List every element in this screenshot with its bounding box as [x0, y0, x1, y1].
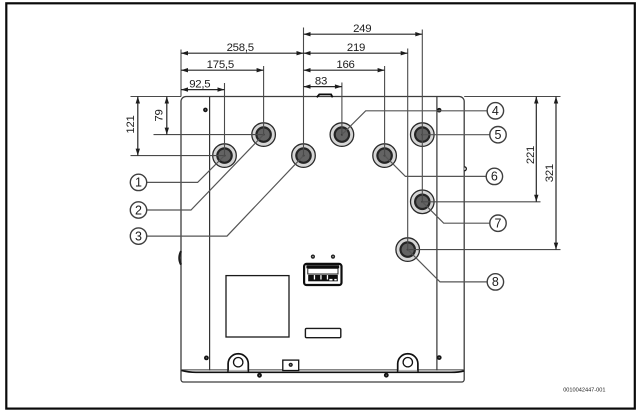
screw top left — [203, 108, 208, 113]
svg-text:321: 321 — [544, 164, 556, 182]
arrows 121 — [136, 97, 140, 104]
label plate — [305, 328, 340, 337]
leader callout 8 — [408, 250, 488, 282]
connector 8 — [396, 238, 420, 262]
arrows 321 — [554, 97, 558, 104]
svg-text:4: 4 — [492, 104, 499, 118]
arrows 175,5 — [181, 68, 188, 72]
ext line connector 5 and 7 — [421, 30, 423, 202]
center bottom bracket — [283, 360, 299, 370]
dim line 219 — [304, 52, 408, 54]
svg-text:79: 79 — [153, 109, 165, 121]
callout circle 3 — [130, 228, 146, 244]
ref line connector 8 right — [408, 249, 561, 251]
dim line 79 — [166, 97, 168, 135]
arrows 92,5 — [181, 87, 188, 91]
callout circle 5 — [490, 127, 506, 143]
callout circle 2 — [130, 202, 146, 218]
ext line connector 3 — [303, 28, 305, 156]
dim line 175,5 — [181, 69, 264, 71]
left mounting tab — [228, 354, 248, 372]
usb socket — [304, 264, 341, 285]
ref line row 134.6 — [154, 134, 264, 136]
dim line 166 — [304, 69, 385, 71]
svg-text:8: 8 — [492, 275, 499, 289]
arrows 79 — [165, 97, 169, 104]
connector 7 — [411, 190, 435, 214]
leader callout 4 — [342, 111, 487, 135]
ext line connector 8 — [407, 49, 409, 250]
arrowheads — [136, 32, 559, 250]
dim line 249 — [304, 33, 423, 35]
leader callout 6 — [385, 156, 487, 177]
ref line top right — [464, 96, 560, 98]
dimension lines — [138, 34, 556, 249]
leader callout 5 — [422, 134, 490, 136]
ref line top left — [131, 96, 182, 98]
callout circle 4 — [487, 103, 503, 119]
screw bottom left — [204, 356, 209, 361]
arrows 258,5 — [181, 51, 188, 55]
ext line connector 6 — [384, 66, 386, 156]
arrows 83 — [304, 84, 311, 88]
connector 4 — [330, 123, 354, 147]
top notch — [317, 94, 333, 97]
electronics box — [226, 276, 289, 337]
leader lines — [147, 111, 490, 282]
svg-text:6: 6 — [491, 170, 498, 184]
svg-text:219: 219 — [347, 42, 365, 54]
inner panel right edge — [436, 97, 438, 371]
dimension labels — [125, 23, 556, 182]
arrows 249 — [304, 32, 311, 36]
bottom rail thick shadow line — [182, 370, 465, 372]
dim line 321 — [555, 97, 557, 250]
connector 2 — [252, 123, 276, 147]
extension and reference lines — [131, 28, 561, 250]
svg-text:0010042447-001: 0010042447-001 — [563, 387, 605, 393]
ext line x181 above panel — [180, 50, 182, 97]
connector 5 — [411, 123, 435, 147]
svg-text:166: 166 — [336, 59, 354, 71]
screw above usb left — [311, 255, 315, 259]
bottom rail top thin line — [182, 369, 464, 371]
screw bottom right — [437, 355, 442, 360]
dim line 83 — [304, 86, 342, 88]
ref line row 155.6 — [131, 155, 225, 157]
dim line 121 — [137, 97, 139, 156]
arrows 221 — [534, 97, 538, 104]
leader callout 3 — [147, 156, 304, 237]
right mounting tab — [398, 354, 418, 372]
connector 3 — [292, 144, 316, 168]
svg-text:175,5: 175,5 — [207, 59, 234, 71]
rivet rail left — [257, 373, 262, 378]
leader callout 2 — [147, 135, 264, 210]
svg-text:1: 1 — [135, 176, 142, 190]
svg-text:83: 83 — [315, 75, 327, 87]
ref line connector 7 right — [422, 201, 540, 203]
dim line 221 — [535, 97, 537, 202]
screw top right — [437, 108, 442, 113]
svg-text:249: 249 — [353, 23, 371, 35]
callout circle 1 — [130, 174, 146, 190]
mounting plate outline — [181, 97, 464, 383]
dim line 92,5 — [181, 89, 225, 91]
rivet rail right — [384, 373, 389, 378]
callout circle 7 — [490, 215, 506, 231]
arrows 166 — [304, 68, 311, 72]
screw above usb right — [331, 255, 335, 259]
svg-text:92,5: 92,5 — [189, 78, 210, 90]
callout circles — [130, 103, 506, 290]
left edge grommet bulge — [179, 251, 181, 264]
leader callout 7 — [422, 202, 490, 223]
svg-text:2: 2 — [135, 203, 142, 217]
ext line connector 1 — [224, 83, 226, 156]
svg-text:221: 221 — [525, 146, 537, 164]
callout circle 6 — [486, 168, 502, 184]
svg-text:7: 7 — [495, 217, 502, 231]
svg-text:258,5: 258,5 — [227, 42, 254, 54]
inner panel left edge — [209, 97, 211, 371]
connector 1 — [213, 144, 237, 168]
callout digits — [135, 104, 502, 289]
svg-text:121: 121 — [125, 115, 137, 133]
svg-text:3: 3 — [135, 229, 142, 243]
arrows 219 — [304, 51, 311, 55]
connector 6 — [373, 144, 397, 168]
right edge pin — [464, 167, 466, 171]
leader callout 1 — [147, 156, 225, 183]
ext line connector 2 — [263, 66, 265, 135]
dim line 258,5 — [181, 52, 304, 54]
callout circle 8 — [487, 274, 503, 290]
svg-text:5: 5 — [495, 128, 502, 142]
ext line connector 4 — [341, 83, 343, 135]
